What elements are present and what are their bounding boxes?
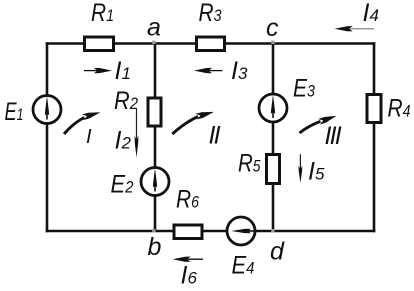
svg-text:I: I [86,126,92,148]
resistor R5 [267,155,280,184]
source E1 [33,96,61,124]
resistor R1 [85,37,114,51]
wire bottom b-d rail [46,230,376,233]
loop arrow III [300,113,338,133]
current arrow I2 [135,108,139,157]
loop arrow I [64,109,101,134]
svg-text:c: c [266,14,279,42]
svg-text:a: a [147,14,161,42]
source E3 [259,94,287,122]
wire middle branch a-b [154,44,157,232]
wire right branch [373,42,376,232]
svg-text:b: b [148,233,162,261]
svg-text:d: d [270,238,285,266]
current arrow I4 [335,26,375,31]
node c [271,41,274,44]
loop arrow II [172,109,214,134]
node a [152,41,155,44]
resistor R6 [174,225,202,239]
resistor R3 [197,37,225,51]
current arrow I5 [299,154,303,183]
node b [152,229,155,232]
current arrow I3 [194,68,223,73]
wire branch c-d [272,44,275,232]
node d [271,229,274,232]
svg-text:III: III [325,122,342,150]
source E2 [141,168,169,196]
current arrow I1 [84,68,112,73]
source E4 [227,217,255,245]
wire left branch [46,42,49,232]
wire top a-c rail [46,42,376,45]
resistor R4 [367,95,381,123]
resistor R2 [148,98,161,126]
current arrow I6 [173,257,204,262]
